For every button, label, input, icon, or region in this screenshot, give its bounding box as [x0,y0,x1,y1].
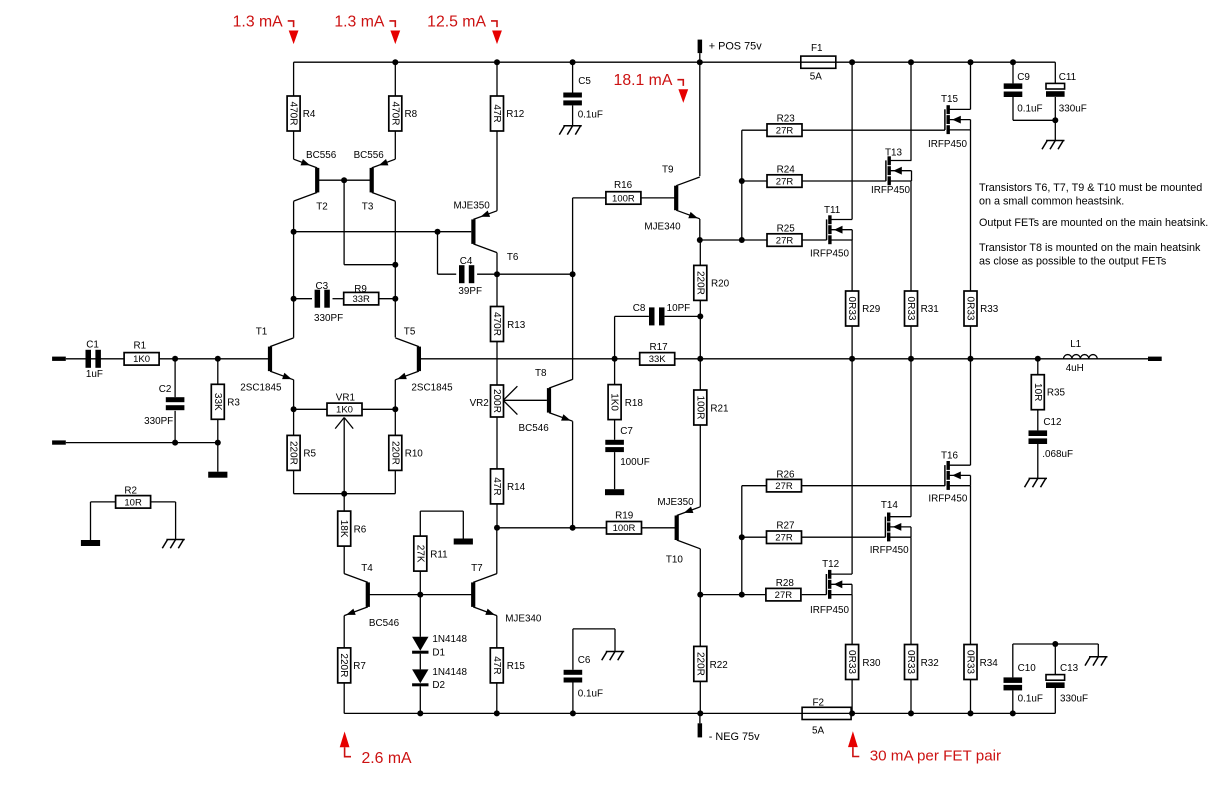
svg-text:220R: 220R [338,653,349,677]
svg-text:330PF: 330PF [144,416,173,427]
svg-text:IRFP450: IRFP450 [810,249,849,260]
svg-text:27R: 27R [775,481,793,492]
svg-text:R30: R30 [862,658,881,669]
svg-text:220R: 220R [389,441,400,465]
svg-text:T2: T2 [316,201,328,212]
svg-text:470R: 470R [389,102,400,126]
svg-text:T5: T5 [404,327,416,338]
svg-text:18K: 18K [338,520,349,538]
svg-text:0.1uF: 0.1uF [1017,103,1042,114]
svg-text:C9: C9 [1017,72,1030,83]
svg-text:T3: T3 [362,201,374,212]
svg-text:R31: R31 [921,304,940,315]
svg-text:2SC1845: 2SC1845 [411,382,453,393]
svg-text:MJE350: MJE350 [454,200,491,211]
svg-text:18.1 mA: 18.1 mA [614,72,673,89]
svg-text:T10: T10 [666,555,684,566]
svg-text:R32: R32 [921,658,939,669]
svg-text:1K0: 1K0 [609,393,620,411]
svg-text:R29: R29 [862,304,881,315]
svg-text:L1: L1 [1070,339,1081,350]
svg-text:R35: R35 [1047,388,1066,399]
svg-text:47R: 47R [491,104,502,122]
svg-text:C8: C8 [633,303,646,314]
svg-text:R28: R28 [776,578,795,589]
svg-text:0.1uF: 0.1uF [578,110,603,121]
svg-text:2SC1845: 2SC1845 [240,382,282,393]
svg-text:T6: T6 [507,252,519,263]
svg-text:C10: C10 [1018,663,1037,674]
svg-text:F2: F2 [813,698,825,709]
svg-text:R7: R7 [353,661,366,672]
svg-text:MJE340: MJE340 [644,222,681,233]
svg-text:1.3 mA: 1.3 mA [233,13,284,30]
svg-text:1K0: 1K0 [133,354,150,365]
svg-text:330PF: 330PF [314,313,343,324]
svg-text:as close as possible to the ou: as close as possible to the output FETs [979,256,1167,268]
svg-text:VR1: VR1 [336,393,356,404]
svg-text:0R33: 0R33 [965,297,976,321]
svg-text:33K: 33K [649,354,667,365]
svg-text:200R: 200R [491,389,502,413]
svg-text:T4: T4 [361,563,373,574]
svg-text:BC556: BC556 [354,150,385,161]
svg-text:C13: C13 [1060,663,1079,674]
svg-text:IRFP450: IRFP450 [810,605,849,616]
svg-text:T11: T11 [824,205,841,216]
svg-text:2.6 mA: 2.6 mA [362,750,413,767]
svg-text:T15: T15 [941,94,959,105]
svg-text:T7: T7 [471,563,483,574]
svg-text:100R: 100R [613,523,636,534]
svg-text:T1: T1 [256,327,268,338]
svg-text:220R: 220R [694,271,705,295]
svg-text:C5: C5 [578,76,591,87]
svg-text:IRFP450: IRFP450 [928,494,967,505]
svg-text:R13: R13 [507,320,526,331]
svg-text:IRFP450: IRFP450 [870,545,909,556]
svg-text:C2: C2 [159,384,172,395]
svg-text:R22: R22 [710,660,728,671]
svg-text:10R: 10R [1032,383,1043,401]
svg-text:R12: R12 [506,109,524,120]
svg-text:R24: R24 [777,164,796,175]
svg-text:0.1uF: 0.1uF [578,689,603,700]
svg-text:0R33: 0R33 [846,650,857,674]
svg-text:R17: R17 [650,342,668,353]
svg-text:R26: R26 [776,470,795,481]
svg-text:33K: 33K [212,393,223,411]
svg-text:R5: R5 [303,449,316,460]
svg-text:R1: R1 [134,340,147,351]
svg-text:100R: 100R [612,193,635,204]
svg-text:0R33: 0R33 [905,650,916,674]
svg-text:VR2: VR2 [470,398,489,409]
svg-text:5A: 5A [810,71,822,82]
svg-text:R3: R3 [227,398,240,409]
svg-text:1N4148: 1N4148 [432,667,467,678]
svg-text:27R: 27R [776,235,794,246]
svg-text:.068uF: .068uF [1042,449,1073,460]
svg-text:+ POS 75v: + POS 75v [709,41,763,53]
svg-text:27R: 27R [776,126,794,137]
svg-text:MJE340: MJE340 [505,614,542,625]
svg-text:27R: 27R [775,590,793,601]
svg-text:R23: R23 [777,113,796,124]
svg-text:T9: T9 [662,165,674,176]
svg-text:1.3 mA: 1.3 mA [334,13,385,30]
svg-text:C11: C11 [1059,72,1077,83]
svg-text:R16: R16 [614,180,633,191]
svg-text:Transistors T6, T7, T9 & T10 m: Transistors T6, T7, T9 & T10 must be mou… [979,182,1202,194]
svg-text:30 mA per FET pair: 30 mA per FET pair [870,748,1001,765]
svg-text:D1: D1 [432,648,445,659]
svg-text:10PF: 10PF [667,303,691,314]
svg-text:BC546: BC546 [369,618,400,629]
svg-text:T13: T13 [885,147,903,158]
svg-text:1uF: 1uF [86,369,103,380]
svg-text:33R: 33R [352,294,370,305]
svg-text:470R: 470R [288,102,299,126]
svg-text:C7: C7 [620,426,633,437]
svg-text:5A: 5A [812,726,824,737]
svg-text:R6: R6 [354,524,367,535]
svg-text:1N4148: 1N4148 [432,634,467,645]
svg-text:330uF: 330uF [1060,693,1088,704]
svg-text:27R: 27R [776,176,794,187]
svg-text:C12: C12 [1043,417,1061,428]
svg-text:R10: R10 [405,449,424,460]
svg-text:BC556: BC556 [306,150,337,161]
svg-text:27K: 27K [414,545,425,563]
svg-text:R9: R9 [354,284,367,295]
svg-text:R8: R8 [405,109,418,120]
svg-text:47R: 47R [491,656,502,674]
svg-text:100R: 100R [694,396,705,420]
svg-text:47R: 47R [491,477,502,495]
svg-text:10R: 10R [124,497,142,508]
svg-text:- NEG 75v: - NEG 75v [709,731,760,743]
svg-text:R21: R21 [710,404,729,415]
svg-text:R34: R34 [980,658,999,669]
svg-text:T14: T14 [881,500,899,511]
svg-text:R18: R18 [625,398,644,409]
svg-text:0R33: 0R33 [965,650,976,674]
svg-text:MJE350: MJE350 [657,497,694,508]
svg-text:T8: T8 [535,368,547,379]
svg-text:100UF: 100UF [620,457,650,468]
svg-text:R11: R11 [430,549,448,560]
svg-text:0R33: 0R33 [846,297,857,321]
svg-text:R2: R2 [124,486,137,497]
svg-text:R19: R19 [615,511,634,522]
svg-text:220R: 220R [288,441,299,465]
svg-text:39PF: 39PF [458,286,482,297]
svg-text:330uF: 330uF [1059,103,1087,114]
svg-text:C3: C3 [316,281,329,292]
svg-text:0R33: 0R33 [905,297,916,321]
svg-text:T12: T12 [822,559,839,570]
svg-text:4uH: 4uH [1066,363,1084,374]
svg-text:C4: C4 [460,256,473,267]
svg-text:470R: 470R [491,312,502,336]
svg-text:IRFP450: IRFP450 [871,185,910,196]
svg-text:Transistor T8 is mounted on th: Transistor T8 is mounted on the main hea… [979,242,1201,254]
svg-text:BC546: BC546 [519,423,550,434]
svg-text:C6: C6 [578,655,591,666]
svg-text:R20: R20 [711,279,730,290]
svg-text:D2: D2 [432,680,445,691]
svg-text:27R: 27R [775,533,793,544]
svg-text:F1: F1 [811,43,823,54]
svg-text:220R: 220R [694,652,705,676]
svg-text:0.1uF: 0.1uF [1018,693,1043,704]
svg-text:1K0: 1K0 [336,405,353,416]
svg-text:R33: R33 [980,304,999,315]
svg-text:IRFP450: IRFP450 [928,139,967,150]
svg-text:Output FETs are mounted on the: Output FETs are mounted on the main heat… [979,217,1208,229]
svg-text:R15: R15 [507,661,526,672]
svg-text:C1: C1 [86,339,99,350]
svg-text:12.5 mA: 12.5 mA [427,13,486,30]
svg-text:R14: R14 [507,482,526,493]
svg-text:R4: R4 [303,109,316,120]
svg-text:on a small common heastsink.: on a small common heastsink. [979,196,1124,208]
svg-text:T16: T16 [941,450,959,461]
svg-text:R25: R25 [777,223,796,234]
svg-text:R27: R27 [776,521,794,532]
